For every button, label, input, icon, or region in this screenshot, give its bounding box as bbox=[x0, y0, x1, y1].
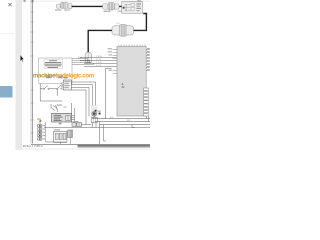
connector C2 (inline pair on W1) bbox=[103, 3, 123, 12]
control unit K1 (outlined box with internal labels) bbox=[39, 58, 72, 84]
ECU U1 pin number ticks (top row) bbox=[119, 45, 146, 47]
ECU U1 right pins bbox=[146, 49, 150, 70]
wire W7 (relay G1 outputs) bbox=[72, 103, 75, 123]
wire W14 (ECU bottom pins to bus) bbox=[145, 116, 147, 118]
svg-text:3 L-R: 3 L-R bbox=[96, 59, 102, 61]
sidebar scrollbar blue thumb bbox=[0, 86, 13, 98]
ECU U1 left pins bbox=[113, 49, 118, 73]
page top hairline bbox=[22, 0, 150, 2]
wire W9 (short bus left) bbox=[82, 124, 92, 126]
sidebar divider line bbox=[0, 32, 15, 35]
switch S3 (lower cluster) bbox=[51, 104, 58, 112]
schematic bottom frame border bbox=[31, 143, 78, 145]
wire W8 (bottom link) bbox=[46, 142, 66, 144]
connector C3 (large inline pair on W2) bbox=[112, 23, 134, 36]
scrollbar thumb bottom (dark bar) bbox=[78, 144, 151, 147]
schematic left frame border bbox=[31, 0, 33, 144]
ECU U1 right terminal boxes bbox=[144, 88, 149, 116]
colored wire tag bbox=[40, 120, 42, 122]
connector X3 (below motor) bbox=[91, 116, 97, 127]
wire W6 (lower return, K1 to F1 area) bbox=[40, 89, 62, 101]
wire harness W3b (K1 to connector D1 bottom) bbox=[72, 59, 94, 65]
K1 header label block bbox=[44, 59, 63, 68]
switch S2 bbox=[57, 85, 62, 89]
wire W2 (thick, detail box to connector C3 and connector D1) bbox=[88, 14, 146, 53]
junction box F1 (multi pin) bbox=[62, 77, 72, 90]
detail box U2 (relay detail inset) bbox=[122, 0, 143, 13]
motor M1 (dark circle) bbox=[91, 106, 101, 118]
switch S1 bbox=[40, 84, 56, 90]
connector D1 (bullet connector at end of W2) bbox=[78, 52, 91, 62]
svg-text:5 G-B: 5 G-B bbox=[96, 62, 102, 64]
resistor R2 (hatch component) bbox=[68, 130, 73, 144]
bus wire N2 bbox=[95, 121, 150, 123]
page background bbox=[0, 0, 150, 150]
svg-text:2 B-W: 2 B-W bbox=[96, 56, 102, 58]
terminal strip X1 (stacked fuse boxes) bbox=[37, 119, 46, 143]
mouse cursor bbox=[20, 55, 24, 62]
connector X4 (small pair below G1) bbox=[72, 121, 82, 126]
wire W12 (drop near right) bbox=[104, 125, 107, 141]
ECU U1 (engine control module block) bbox=[108, 45, 150, 116]
relay G1 (gray block) bbox=[52, 113, 72, 124]
wire labels on W3 bbox=[96, 56, 102, 67]
wire W5 (nested L drops from F1) bbox=[71, 82, 95, 125]
svg-text:machinetradelogic.com: machinetradelogic.com bbox=[33, 74, 94, 80]
connector X2 (3 gang block) bbox=[54, 129, 67, 142]
wire W13 (horizontal link at 127.5) bbox=[44, 127, 150, 129]
wire W10 (drop from N2 to bottom frame) bbox=[99, 122, 101, 145]
K1 lower labels bbox=[45, 76, 63, 79]
wire harness W3 (4 wires D1 to ECU J1) bbox=[80, 57, 117, 66]
sidebar close button x bbox=[8, 3, 11, 6]
svg-text:B-R: B-R bbox=[110, 117, 114, 119]
bus wire N1 bbox=[92, 118, 150, 120]
wire W11 (tick on N3) bbox=[132, 125, 135, 128]
connector C1 (top inline pair) bbox=[55, 2, 72, 10]
scrollbar track bottom bbox=[22, 148, 150, 150]
viewer gray strip bbox=[16, 0, 23, 150]
wire W4 (node drop from label 2) bbox=[106, 68, 112, 118]
bus wire N3 bbox=[100, 124, 151, 126]
svg-text:6 Y-G: 6 Y-G bbox=[96, 65, 102, 67]
wire W1 (thick battery feed, top) bbox=[72, 5, 122, 7]
svg-text:10.5m x 7.05 m: 10.5m x 7.05 m bbox=[23, 144, 44, 148]
